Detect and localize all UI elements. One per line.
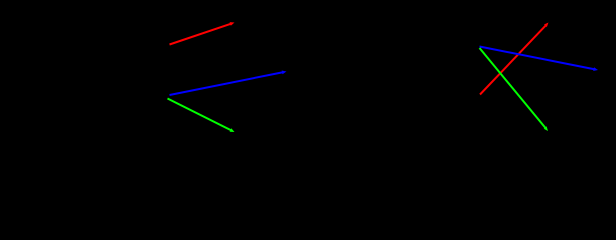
right red arrow xyxy=(480,23,549,95)
left red arrow xyxy=(170,22,235,44)
right blue arrow xyxy=(480,47,599,72)
left green arrow xyxy=(168,99,235,133)
right green arrow xyxy=(480,48,549,131)
left blue arrow xyxy=(170,71,287,96)
